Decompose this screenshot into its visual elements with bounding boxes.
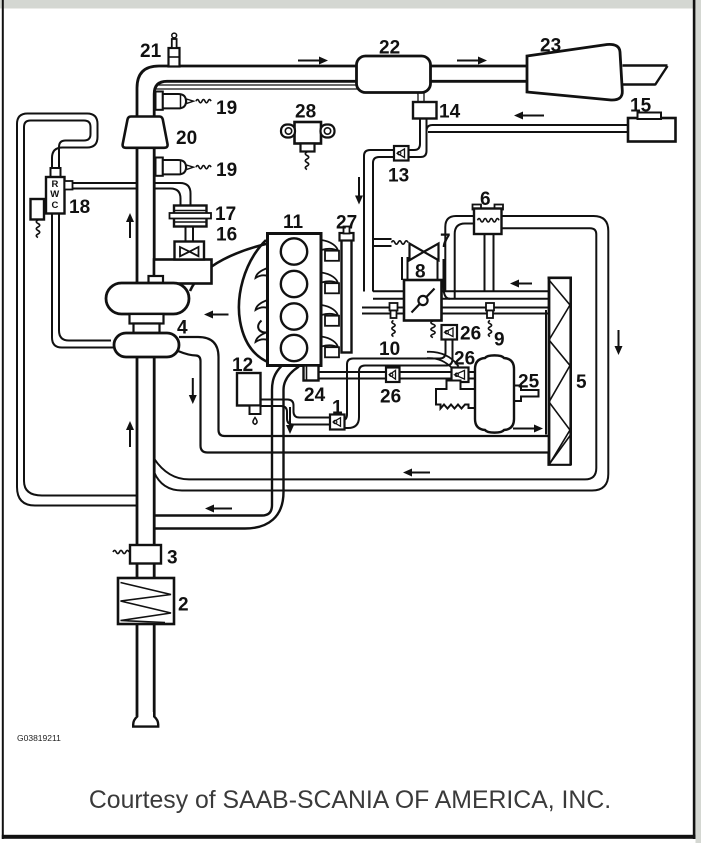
svg-text:28: 28 bbox=[295, 102, 316, 123]
svg-text:G03819211: G03819211 bbox=[17, 733, 61, 743]
svg-text:6: 6 bbox=[480, 189, 491, 210]
svg-text:15: 15 bbox=[630, 96, 652, 117]
intercooler 5 tower bbox=[548, 277, 551, 466]
cylinder bbox=[281, 271, 307, 297]
wire: small hose into valve 26 top near booster bbox=[427, 358, 452, 368]
muffler 3 bbox=[113, 550, 129, 553]
fitting 9 bbox=[486, 303, 494, 311]
solenoid valve 14 bbox=[413, 102, 437, 119]
svg-text:19: 19 bbox=[216, 160, 237, 181]
muffler 22 bbox=[357, 56, 431, 93]
right gray band bbox=[696, 0, 701, 843]
wire: canister 12 to check valve 1 S hose bbox=[260, 400, 330, 418]
svg-text:26: 26 bbox=[454, 349, 475, 370]
wire: hose from 15 to junction at 13/14 bbox=[409, 119, 421, 151]
arrow up main pipe top bbox=[129, 222, 131, 238]
fuel pressure regulator 24 bbox=[304, 366, 319, 381]
svg-text:9: 9 bbox=[494, 330, 505, 351]
svg-text:22: 22 bbox=[379, 38, 400, 59]
wire: run D exhaust pipe to engine down pipe bbox=[154, 366, 282, 516]
svg-text:23: 23 bbox=[540, 36, 561, 57]
wire: main exhaust/boost pipe white interior bbox=[139, 68, 527, 717]
pressure regulator 28 bbox=[295, 122, 322, 144]
fitting 10 bbox=[390, 303, 398, 311]
intake runners right of engine bbox=[322, 240, 339, 251]
svg-text:17: 17 bbox=[215, 204, 236, 225]
arrow up main pipe mid bbox=[129, 430, 131, 447]
arrow left run D bbox=[214, 508, 232, 510]
turbocharger flanges bbox=[130, 314, 164, 324]
top gray band bbox=[0, 0, 701, 9]
engine 11 block bbox=[268, 234, 322, 366]
wire: left loop bottom run to exhaust pipe bbox=[17, 487, 138, 506]
wire: valve 7 down to throttle 8 bbox=[402, 257, 408, 280]
throttle valve 7 butterfly bbox=[392, 241, 409, 244]
wire: air duct 4 from turbo to intercooler foot (inner line) bbox=[179, 337, 549, 436]
arrow left 15 line bbox=[523, 115, 544, 117]
exhaust tail pipe tip bbox=[623, 66, 668, 86]
svg-text:19: 19 bbox=[216, 98, 237, 119]
wire: valve 13 horizontal hose and down pipe bbox=[364, 150, 394, 292]
svg-text:26: 26 bbox=[460, 324, 481, 345]
arrow down engine pipe bbox=[289, 407, 291, 425]
border left line bbox=[2, 0, 4, 839]
arrow left run B bbox=[412, 472, 430, 474]
svg-text:18: 18 bbox=[69, 197, 90, 218]
check valve 1 bbox=[330, 415, 345, 430]
injector 19 upper bbox=[156, 92, 163, 110]
arrow down from 13 bbox=[358, 177, 360, 196]
check valve 26 (under throttle) bbox=[442, 325, 458, 340]
svg-text:20: 20 bbox=[176, 128, 197, 149]
injector 19 lower bbox=[156, 158, 163, 176]
wire: RWC to charcoal filter 17 hose bbox=[65, 183, 191, 206]
check valve 26 (lower line) bbox=[386, 368, 400, 383]
arrow right top pipe 2 bbox=[457, 60, 478, 62]
svg-text:14: 14 bbox=[439, 102, 461, 123]
arrow down duct 4 bbox=[192, 378, 194, 395]
arrow left near 4 bbox=[213, 314, 229, 316]
svg-text:11: 11 bbox=[283, 212, 304, 233]
brake booster 25 bbox=[514, 386, 539, 402]
border right line bbox=[693, 0, 696, 839]
resonator/megaphone 23 bbox=[527, 44, 622, 100]
wire: left outer loop hose (candy cane to RWC + down left side) bbox=[17, 114, 98, 488]
svg-text:25: 25 bbox=[518, 372, 540, 393]
turbocharger: compressor housing bbox=[114, 333, 179, 357]
turbocharger: upper housing bbox=[149, 276, 164, 285]
svg-text:1: 1 bbox=[332, 398, 343, 419]
check valve 26 (booster line) bbox=[452, 368, 469, 383]
cylinder bbox=[281, 303, 307, 329]
node: inner box right edge along intercooler bbox=[545, 310, 547, 435]
arrow right under booster bbox=[513, 428, 534, 430]
border bottom line bbox=[2, 835, 696, 839]
svg-text:Courtesy of SAAB-SCANIA OF AME: Courtesy of SAAB-SCANIA OF AMERICA, INC. bbox=[89, 787, 611, 814]
wire: tube from valve 7 to feed bbox=[373, 239, 392, 246]
EVAP canister 12 bbox=[237, 373, 261, 406]
cylinder bbox=[281, 238, 307, 264]
control unit 15 bbox=[628, 118, 676, 142]
wire: hose pipe 13 down to throttle body area, tube behind 8 to intercooler 5 bbox=[373, 290, 549, 292]
engine funnel curves to turbo bbox=[190, 243, 270, 291]
spring under throttle 8 bbox=[431, 321, 435, 338]
fuel rail 27 bbox=[342, 240, 352, 353]
intake plenum box under valve 16 bbox=[154, 260, 212, 284]
arrow left above tube 8-5 bbox=[519, 283, 532, 285]
solenoid valve 13 bbox=[394, 146, 409, 161]
bypass valve 6 bbox=[473, 205, 482, 210]
svg-text:27: 27 bbox=[336, 213, 357, 234]
svg-text:26: 26 bbox=[380, 387, 401, 408]
svg-text:C: C bbox=[52, 200, 59, 211]
throttle body 8 bbox=[404, 280, 442, 321]
wire: boost tap hose from exhaust pipe to solenoid 14 bbox=[156, 85, 424, 103]
charcoal filter 17 bbox=[174, 206, 207, 227]
flex joint 20 bbox=[123, 117, 168, 148]
svg-text:24: 24 bbox=[304, 385, 326, 406]
svg-text:2: 2 bbox=[178, 595, 189, 616]
wire: valve 7 right tube down into main tube bbox=[438, 259, 444, 291]
RWC valve 18 bbox=[51, 168, 61, 177]
svg-text:4: 4 bbox=[177, 318, 188, 339]
svg-text:8: 8 bbox=[415, 262, 426, 283]
cylinder bbox=[281, 335, 307, 361]
wire: hose 24 to 26 to 26 to booster bbox=[319, 371, 477, 373]
catalytic converter 2 bbox=[118, 578, 174, 624]
svg-text:5: 5 bbox=[576, 372, 587, 393]
svg-text:12: 12 bbox=[232, 355, 253, 376]
svg-text:21: 21 bbox=[140, 41, 162, 62]
sensor 21 bbox=[169, 48, 180, 67]
wire: air duct 4 outer line bbox=[178, 351, 571, 465]
wire: solenoid 6 left port tube down bbox=[445, 216, 474, 291]
svg-text:16: 16 bbox=[216, 225, 237, 246]
wire: solenoid 6 bottom leg bbox=[485, 234, 494, 291]
svg-text:W: W bbox=[50, 189, 59, 200]
wire: top boost pipe outline bbox=[137, 66, 527, 716]
arrow down right loop bbox=[618, 330, 620, 346]
stem 17 to 16 bbox=[186, 227, 194, 242]
wire: throttle 8 via valve 26 down S to check valve 1 bbox=[341, 340, 446, 421]
wire: right outer loop from solenoid 6 to bottom run bbox=[154, 216, 608, 491]
wire: lower tube behind throttle 8 to intercooler bbox=[362, 307, 549, 309]
svg-text:3: 3 bbox=[167, 548, 178, 569]
svg-text:7: 7 bbox=[440, 231, 451, 252]
arrow right top pipe 1 bbox=[298, 60, 319, 62]
svg-text:10: 10 bbox=[379, 339, 400, 360]
shutoff valve 16 bbox=[175, 242, 205, 260]
engine left exhaust notches bbox=[256, 268, 268, 278]
svg-text:13: 13 bbox=[388, 166, 409, 187]
wire: RWC down to turbo hose bbox=[52, 214, 113, 348]
exhaust tip trumpet bbox=[133, 712, 158, 727]
